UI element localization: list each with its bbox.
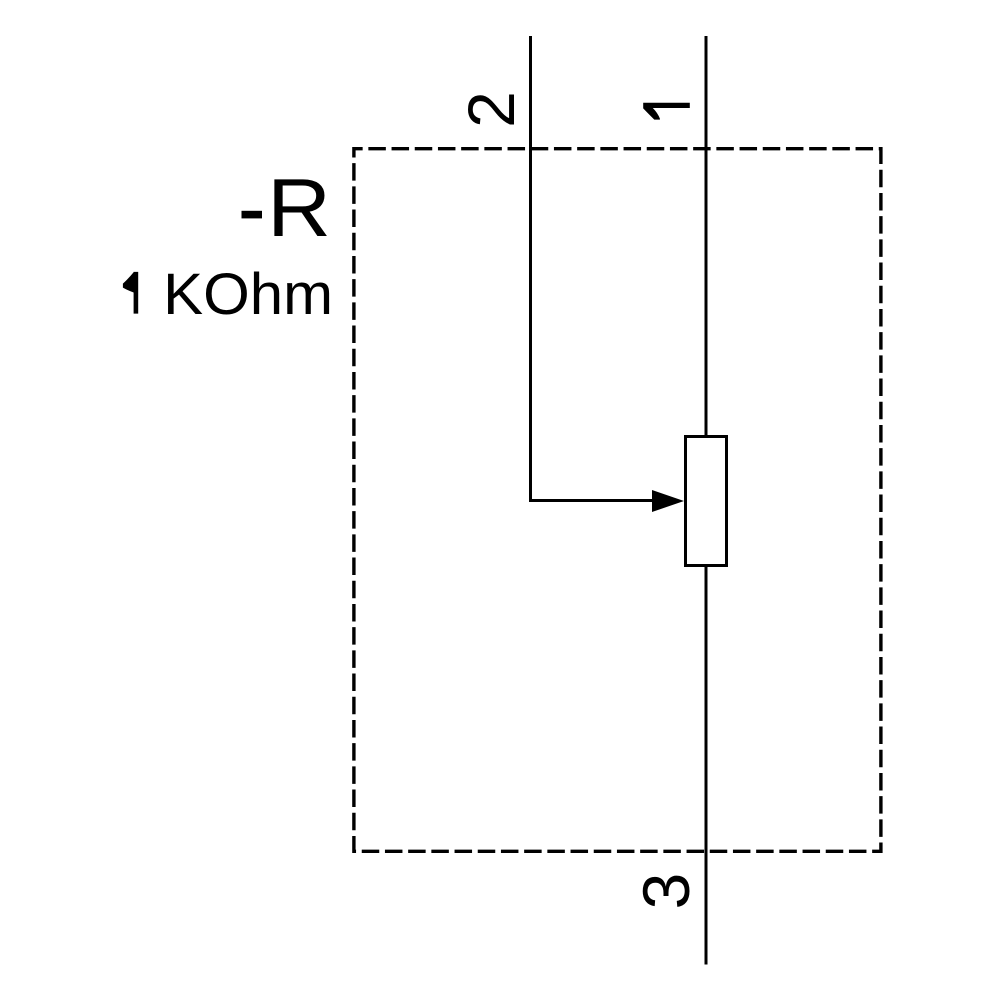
wire pin 1 vertical [705,36,708,437]
svg-text:3: 3 [629,873,703,910]
wiper arrowhead [652,490,684,512]
wire pin 2 vertical [529,36,532,501]
svg-text:R: R [267,161,331,254]
svg-text:2: 2 [454,91,528,128]
potentiometer body R [686,437,727,566]
wire wiper horizontal [529,499,660,502]
svg-text:KOhm: KOhm [163,261,333,327]
reference designator -R : minus stroke [242,211,263,219]
wire pin 3 vertical [705,566,708,965]
dashed enclosure box [354,149,881,852]
pin label 1 (custom glyph, rotated, no base serif) [643,103,690,120]
value label 1 KOhm : digit 1 (custom glyph, no base serif) [123,272,138,314]
